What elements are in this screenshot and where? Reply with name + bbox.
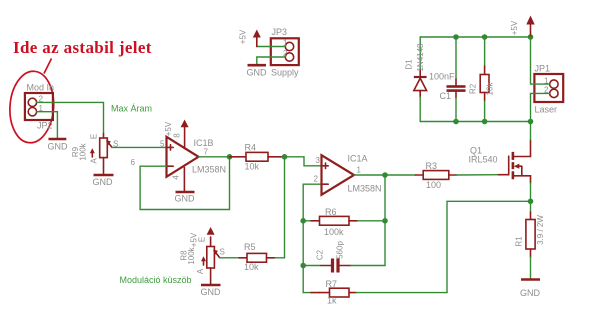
ground (R1) <box>520 280 541 299</box>
wire ModIn pin1 to GND <box>37 112 58 138</box>
svg-text:10k: 10k <box>486 82 495 96</box>
ground (JP3) <box>247 65 268 77</box>
op-amp IC1A <box>314 154 382 195</box>
svg-text:100k: 100k <box>187 246 196 264</box>
svg-text:C2: C2 <box>316 249 325 260</box>
wire JP1 pin2 to rail <box>531 93 550 121</box>
resistor R3 100 <box>385 161 499 190</box>
svg-text:D1: D1 <box>405 59 414 70</box>
svg-text:R7: R7 <box>326 279 338 289</box>
resistor R7 1k <box>303 279 447 306</box>
IC1B pin4 lead <box>183 168 185 192</box>
svg-text:Max Áram: Max Áram <box>111 104 152 114</box>
svg-text:GND: GND <box>48 142 69 152</box>
wire IC1A output <box>354 174 385 176</box>
svg-text:GND: GND <box>201 287 222 297</box>
node C2 left <box>300 263 306 269</box>
svg-text:Mod In: Mod In <box>27 83 55 93</box>
wire +5V rail to JP1 pin1 <box>531 37 550 84</box>
svg-text:Moduláció küszöb: Moduláció küszöb <box>120 275 192 285</box>
potentiometer R9 100k <box>71 134 118 175</box>
svg-text:LM358N: LM358N <box>192 165 226 175</box>
svg-text:JP2: JP2 <box>37 121 53 131</box>
svg-text:R5: R5 <box>244 242 256 252</box>
connector JP2 Mod In <box>25 83 54 131</box>
wire R5 riser <box>284 157 286 258</box>
svg-text:JP1: JP1 <box>535 64 551 74</box>
svg-text:100k: 100k <box>324 227 344 237</box>
diode D1 1N4148 <box>405 37 427 122</box>
svg-text:10k: 10k <box>245 162 260 172</box>
node R2 top <box>482 34 488 40</box>
wire ModIn pin2 to R9 top <box>37 102 104 133</box>
resistor R1 3.9/2W <box>515 201 546 278</box>
node R4/R5 junction <box>282 154 288 160</box>
svg-text:E: E <box>90 134 99 139</box>
capacitor C2 560p <box>303 241 385 273</box>
supply +5V (IC1B pin8) <box>164 120 189 149</box>
svg-text:100: 100 <box>426 180 441 190</box>
wire JP3 pin2 to GND <box>257 57 286 64</box>
node R2 bottom <box>482 119 488 125</box>
svg-text:1k: 1k <box>327 296 337 306</box>
wire Q1 source to node <box>530 183 532 201</box>
svg-text:GND: GND <box>247 68 268 78</box>
svg-text:Laser: Laser <box>535 105 558 115</box>
node R6 right <box>382 218 388 224</box>
wire top rail <box>420 36 530 38</box>
capacitor C1 100nF <box>429 37 466 122</box>
node IC1B out <box>227 154 233 160</box>
node IC1A out <box>382 172 388 178</box>
svg-text:Ide az astabil jelet: Ide az astabil jelet <box>13 38 152 57</box>
svg-text:LM358N: LM358N <box>348 184 382 194</box>
svg-text:2: 2 <box>314 175 319 184</box>
svg-text:+5V: +5V <box>239 29 248 44</box>
wire node to IC1A pin3 <box>285 157 322 166</box>
svg-text:6: 6 <box>131 158 136 167</box>
svg-text:Supply: Supply <box>271 68 299 78</box>
svg-text:4: 4 <box>172 175 181 180</box>
node C1 top <box>453 34 459 40</box>
wire IC1B feedback loop <box>140 157 229 210</box>
resistor R5 10k <box>219 242 284 272</box>
supply +5V (JP3) <box>239 29 261 46</box>
node C1 bottom <box>453 119 459 125</box>
ground (IC1B pin4) <box>175 192 196 204</box>
svg-text:1: 1 <box>357 166 362 175</box>
svg-text:R4: R4 <box>245 143 257 153</box>
annotation pointer line <box>44 59 52 74</box>
resistor R6 100k <box>303 207 385 237</box>
svg-text:3: 3 <box>316 156 321 165</box>
svg-text:GND: GND <box>175 194 196 204</box>
svg-text:+5V: +5V <box>190 232 199 247</box>
wire IC1A pin2 left <box>303 184 321 292</box>
svg-text:3.9 / 2W: 3.9 / 2W <box>536 215 545 245</box>
svg-text:C1: C1 <box>440 91 452 101</box>
svg-text:GND: GND <box>520 288 541 298</box>
svg-text:10k: 10k <box>244 262 259 272</box>
svg-text:100nF: 100nF <box>429 72 455 82</box>
svg-text:A: A <box>196 268 205 274</box>
node R6 left <box>300 218 306 224</box>
svg-text:R2: R2 <box>469 83 478 94</box>
resistor R2 10k <box>469 37 495 122</box>
svg-text:IRL540: IRL540 <box>469 155 498 165</box>
svg-text:A: A <box>90 158 99 164</box>
node Q1 source <box>528 199 534 205</box>
svg-text:8: 8 <box>173 133 182 138</box>
annotation ellipse <box>8 70 56 144</box>
connector JP3 Supply <box>271 27 299 78</box>
wire JP3 pin1 to +5V <box>257 46 286 48</box>
svg-text:IC1A: IC1A <box>348 154 368 164</box>
connector JP1 Laser <box>534 64 563 115</box>
svg-text:IC1B: IC1B <box>194 138 214 148</box>
wire source node to R7 (feedback) <box>447 201 531 292</box>
ground (Mod In) <box>48 139 69 152</box>
op-amp IC1B <box>131 133 227 180</box>
svg-text:+5V: +5V <box>510 20 519 35</box>
transistor Q1 IRL540 <box>469 140 531 183</box>
svg-text:JP3: JP3 <box>272 27 288 37</box>
potentiometer R8 100k <box>180 227 225 284</box>
svg-text:7: 7 <box>204 148 209 157</box>
wire R9 wiper to IC1B pin5 <box>112 146 167 148</box>
node drain rail <box>528 119 534 125</box>
wire IC1B output to node <box>199 156 230 158</box>
resistor R4 10k <box>230 143 285 172</box>
ground (R8) <box>201 285 222 297</box>
supply +5V (rail) <box>510 16 535 38</box>
wire bottom rail <box>420 121 530 123</box>
ground (R9) <box>93 175 114 187</box>
wire Q1 drain to rail <box>530 122 532 141</box>
svg-text:R3: R3 <box>426 161 438 171</box>
svg-text:560p: 560p <box>336 241 345 259</box>
svg-text:R6: R6 <box>325 207 337 217</box>
svg-text:+5V: +5V <box>164 121 173 136</box>
svg-text:GND: GND <box>93 177 114 187</box>
node +5V rail <box>528 34 534 40</box>
svg-text:5: 5 <box>160 139 165 148</box>
svg-text:100k: 100k <box>79 142 88 160</box>
svg-text:E: E <box>198 237 207 242</box>
svg-text:S: S <box>220 248 225 257</box>
svg-text:R1: R1 <box>515 236 524 247</box>
wire feedback riser right <box>384 175 386 266</box>
svg-text:1N4148: 1N4148 <box>416 43 425 72</box>
